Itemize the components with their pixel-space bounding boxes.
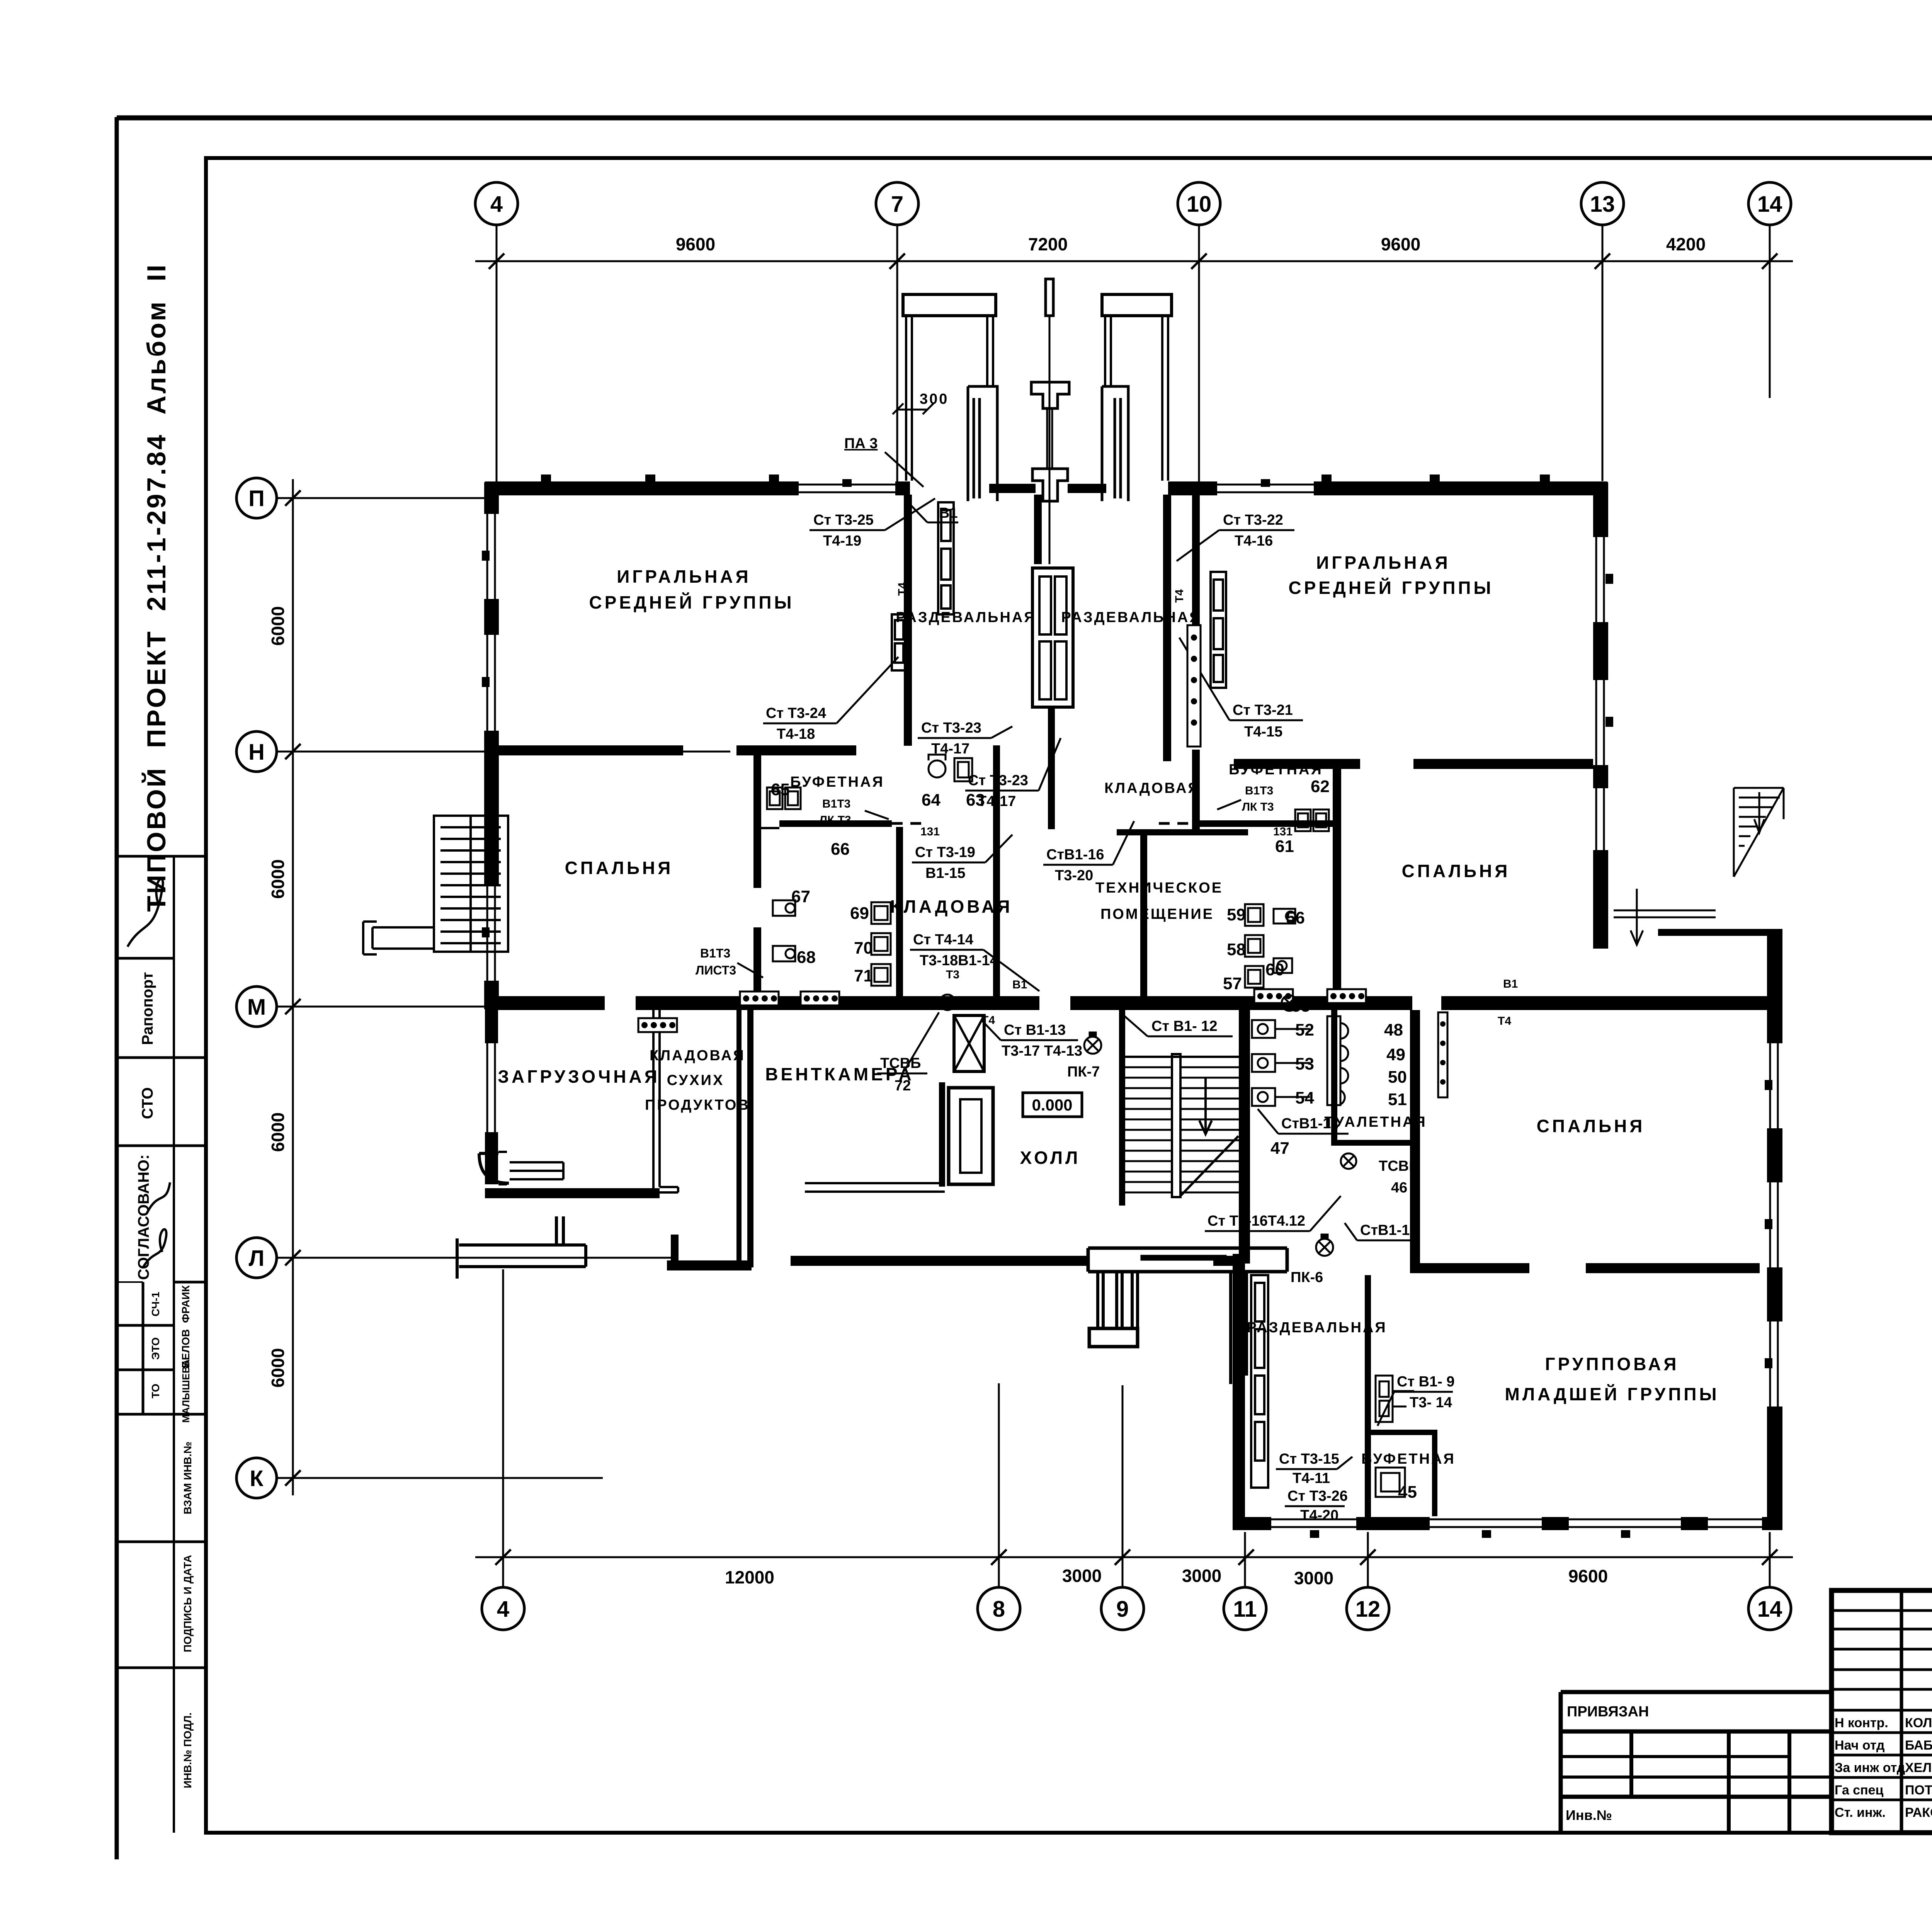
east13 window 3 — [1593, 788, 1608, 850]
riser box 5 — [1327, 989, 1366, 1003]
svg-text:ЛК Т3: ЛК Т3 — [1242, 801, 1274, 813]
center-right vertical wall — [1192, 495, 1200, 661]
svg-text:Т4: Т4 — [1173, 589, 1186, 603]
G_FIXTURES — [638, 502, 1543, 1497]
NW stair walkway — [363, 922, 434, 954]
svg-text:Т4: Т4 — [981, 1014, 995, 1027]
pilasters on north wall — [541, 474, 1550, 483]
svg-text:Ст Т3-23: Ст Т3-23 — [921, 720, 981, 736]
svg-text:ИГРАЛЬНАЯ: ИГРАЛЬНАЯ — [1316, 553, 1450, 573]
svg-text:66: 66 — [831, 840, 850, 859]
svg-text:68: 68 — [797, 948, 816, 967]
pipe tags — [896, 582, 1543, 1027]
G_TITLEBLOCK — [1832, 1590, 1932, 1865]
svg-text:ЗАГРУЗОЧНАЯ: ЗАГРУЗОЧНАЯ — [498, 1066, 660, 1087]
lower-left razdevalnaya radiator strip — [1251, 1275, 1268, 1488]
svg-text:СтВ1-11: СтВ1-11 — [1281, 1116, 1338, 1132]
svg-text:Ст Т3-19: Ст Т3-19 — [915, 844, 975, 861]
svg-text:В1: В1 — [1503, 978, 1518, 990]
svg-text:Т3: Т3 — [946, 968, 959, 981]
entry piers — [556, 1216, 563, 1245]
vertical riser strip left-center — [1187, 625, 1201, 747]
svg-text:ПА 3: ПА 3 — [844, 435, 878, 452]
drain symbol left — [940, 995, 955, 1010]
svg-text:3000: 3000 — [1182, 1566, 1221, 1586]
left axis circles — [236, 478, 277, 1498]
west wall lower — [485, 997, 498, 1184]
center thin pole line — [1049, 316, 1051, 564]
svg-text:В1: В1 — [1012, 978, 1027, 991]
svg-text:14: 14 — [1757, 1597, 1782, 1622]
central staircase stringer — [1172, 1054, 1180, 1197]
right porch columns — [1105, 316, 1168, 481]
east wall axis13 — [1593, 482, 1608, 949]
south vestibule left foot — [1089, 1328, 1138, 1347]
bufetnaya lower walls — [1371, 1430, 1437, 1435]
window band north 1 — [799, 479, 895, 495]
svg-text:ТСВБ: ТСВБ — [1379, 1158, 1419, 1174]
east14 window 2 — [1765, 1182, 1782, 1267]
svg-text:Рапопорт: Рапопорт — [139, 972, 156, 1045]
svg-text:Га спец: Га спец — [1835, 1783, 1884, 1798]
svg-text:50: 50 — [1388, 1068, 1407, 1087]
L wall hall — [667, 1260, 752, 1270]
south wall lower-right block — [1233, 1517, 1782, 1530]
riser box 1 — [638, 1018, 677, 1032]
svg-text:МЛАДШЕЙ ГРУППЫ: МЛАДШЕЙ ГРУППЫ — [1505, 1384, 1719, 1404]
svg-text:Ст Т3-26: Ст Т3-26 — [1287, 1488, 1348, 1504]
svg-text:45: 45 — [1398, 1483, 1417, 1502]
G_WALLS — [484, 481, 1782, 1530]
svg-text:КЛАДОВАЯ: КЛАДОВАЯ — [890, 896, 1012, 917]
north wall P — [485, 481, 910, 495]
entry steps SW — [510, 1162, 563, 1179]
row: signature/rapoport — [118, 957, 174, 960]
svg-text:СТО: СТО — [139, 1087, 156, 1119]
svg-text:СРЕДНЕЙ ГРУППЫ: СРЕДНЕЙ ГРУППЫ — [589, 592, 794, 612]
svg-text:58: 58 — [1227, 940, 1246, 959]
svg-text:Т4-11: Т4-11 — [1293, 1470, 1330, 1486]
svg-text:ФРАИК: ФРАИК — [180, 1285, 192, 1323]
roles and names — [1835, 1716, 1932, 1820]
svg-text:Т4-19: Т4-19 — [823, 533, 861, 549]
razdevalnaya left west wall — [904, 495, 912, 746]
svg-text:7: 7 — [891, 192, 903, 217]
central staircase landing edge — [1125, 1056, 1239, 1058]
center riser shaft — [1032, 568, 1073, 707]
inner frame — [206, 158, 1932, 1833]
svg-text:11: 11 — [1233, 1597, 1257, 1622]
axis 14 line top — [1769, 225, 1771, 398]
svg-text:71: 71 — [854, 966, 873, 985]
svg-text:КОЛГАНОВА: КОЛГАНОВА — [1905, 1716, 1932, 1730]
kladovaya suhih left wall — [653, 1010, 678, 1192]
riser box 2 — [740, 992, 779, 1005]
G_AXES — [236, 182, 1793, 1630]
svg-text:Т3-18В1-14: Т3-18В1-14 — [920, 952, 998, 969]
M wall — [485, 996, 1782, 1010]
PK-7 symbol — [1084, 1032, 1101, 1054]
axis 13 line top — [1602, 225, 1604, 481]
svg-text:СПАЛЬНЯ: СПАЛЬНЯ — [565, 858, 673, 878]
svg-text:Т3-20: Т3-20 — [1055, 867, 1093, 884]
svg-text:М: М — [247, 995, 266, 1020]
axis 7 line top — [896, 225, 898, 483]
svg-text:Л: Л — [249, 1246, 265, 1271]
svg-text:62: 62 — [1311, 777, 1330, 796]
svg-text:СЧ-1: СЧ-1 — [150, 1292, 162, 1316]
west wall window 2 — [482, 635, 499, 731]
svg-text:49: 49 — [1386, 1045, 1405, 1064]
svg-text:Т3-17 Т4-13: Т3-17 Т4-13 — [1002, 1043, 1082, 1059]
svg-text:12000: 12000 — [725, 1567, 774, 1587]
bottom dimension labels — [725, 1566, 1608, 1588]
svg-text:57: 57 — [1223, 974, 1242, 993]
razdevalnaya lower right wall — [1365, 1275, 1371, 1519]
left dimension line — [292, 479, 294, 1495]
svg-text:Ст Т3-21: Ст Т3-21 — [1233, 702, 1293, 718]
svg-text:0.000: 0.000 — [1032, 1096, 1072, 1114]
wash trough 48-51 — [1327, 1016, 1348, 1105]
riser box 4 — [1254, 989, 1293, 1003]
svg-text:51: 51 — [1388, 1090, 1407, 1109]
NE external stair — [1734, 788, 1784, 877]
svg-text:В1Т3: В1Т3 — [700, 946, 730, 960]
divider spalnya-lr left wall — [1410, 1009, 1420, 1263]
svg-text:Т4: Т4 — [896, 582, 909, 596]
svg-text:4: 4 — [497, 1597, 509, 1622]
svg-text:П: П — [248, 486, 265, 511]
dashed partition lines — [892, 822, 1200, 825]
svg-text:14: 14 — [1757, 192, 1782, 217]
G_PORCHES — [903, 279, 1172, 707]
svg-text:Т4-20: Т4-20 — [1300, 1507, 1338, 1524]
east14 window 3 — [1765, 1321, 1782, 1406]
svg-text:Ст Т3-23: Ст Т3-23 — [968, 772, 1028, 789]
svg-text:47: 47 — [1270, 1139, 1289, 1158]
svg-text:БАБИН: БАБИН — [1905, 1738, 1932, 1753]
toilet bottom wall — [1331, 1140, 1420, 1146]
kladovaya c left wall — [896, 827, 903, 997]
svg-text:6000: 6000 — [268, 859, 288, 899]
svg-text:В1-15: В1-15 — [925, 865, 966, 881]
fixtures 59-57 stack — [1245, 904, 1264, 988]
svg-text:ПОТАПОВА: ПОТАПОВА — [1905, 1783, 1932, 1798]
east14 window 1 — [1765, 1043, 1782, 1128]
west wall upper — [484, 482, 499, 1009]
svg-text:Ст В1- 9: Ст В1- 9 — [1397, 1374, 1455, 1390]
svg-text:СОГЛАСОВАНО:: СОГЛАСОВАНО: — [135, 1155, 152, 1280]
west wall lower-right block axis11 — [1233, 1254, 1245, 1530]
privyazan table outline — [1561, 1692, 1832, 1833]
NW external stair — [434, 816, 508, 952]
buffet sinks right — [1295, 810, 1329, 831]
center flag pole rect — [1046, 279, 1053, 316]
svg-text:ЭТО: ЭТО — [150, 1337, 162, 1360]
svg-text:ТУАЛЕТНАЯ: ТУАЛЕТНАЯ — [1324, 1114, 1427, 1130]
fixture 60 — [1274, 958, 1292, 973]
svg-text:3000: 3000 — [1062, 1566, 1102, 1586]
svg-text:Ст Т3-16Т4.12: Ст Т3-16Т4.12 — [1207, 1213, 1305, 1229]
right porch canopy — [1102, 294, 1172, 316]
svg-text:СтВ1-16: СтВ1-16 — [1046, 847, 1104, 863]
left porch body — [968, 386, 997, 501]
corridor ramp lines — [1614, 889, 1716, 945]
svg-text:3000: 3000 — [1294, 1568, 1333, 1588]
svg-text:61: 61 — [1275, 837, 1294, 856]
svg-text:Нач отд: Нач отд — [1835, 1738, 1885, 1753]
G_NUMBERS — [771, 777, 1417, 1502]
svg-text:ПК-7: ПК-7 — [1067, 1064, 1100, 1080]
svg-text:СтВ1-10: СтВ1-10 — [1360, 1222, 1418, 1238]
svg-text:4: 4 — [490, 192, 503, 217]
svg-text:131: 131 — [920, 825, 940, 838]
tech room top wall — [1117, 829, 1248, 835]
svg-text:Т3: Т3 — [1529, 997, 1543, 1010]
gruppovaya divider walls — [1410, 1263, 1529, 1273]
svg-text:За инж отд: За инж отд — [1835, 1760, 1905, 1775]
G_PRIVYAZAN — [1561, 1692, 1832, 1833]
drain symbol right — [1282, 995, 1297, 1011]
center column upper — [1031, 382, 1069, 408]
svg-text:В1Т3: В1Т3 — [822, 798, 850, 810]
buffet right bottom wall — [1200, 820, 1333, 827]
svg-text:ИГРАЛЬНАЯ: ИГРАЛЬНАЯ — [617, 566, 751, 587]
ventkamera south wall — [805, 1183, 945, 1192]
top dimension line — [475, 260, 1793, 262]
svg-text:РАКОВА: РАКОВА — [1905, 1805, 1932, 1820]
N wall left segs — [498, 745, 683, 755]
fixture 67 — [773, 900, 795, 916]
fixture 45 box — [1376, 1468, 1405, 1497]
sidebar signature scribbles — [128, 879, 170, 1267]
east13 window 2 — [1593, 680, 1613, 765]
kladovaya c right wall — [993, 745, 1000, 997]
G_WINDOWS — [482, 474, 1782, 1538]
row: CTO — [118, 1145, 206, 1147]
south-lr window 2 — [1430, 1516, 1542, 1538]
south-lr window 3 — [1569, 1516, 1681, 1538]
svg-text:ПК-6: ПК-6 — [1291, 1269, 1323, 1286]
svg-text:59: 59 — [1227, 905, 1246, 924]
sidebar rotated small labels — [135, 972, 194, 1788]
left porch columns — [906, 316, 993, 481]
tech room left wall — [1140, 829, 1147, 997]
svg-text:300: 300 — [920, 391, 949, 407]
svg-text:Т3- 14: Т3- 14 — [1410, 1395, 1452, 1411]
svg-text:9600: 9600 — [1381, 234, 1420, 254]
svg-text:ПОДПИСЬ И ДАТА: ПОДПИСЬ И ДАТА — [182, 1555, 194, 1652]
svg-text:9600: 9600 — [1568, 1566, 1608, 1586]
G_SIDEBAR — [118, 263, 206, 1833]
center divider upper — [1034, 495, 1042, 564]
svg-text:Т4-15: Т4-15 — [1244, 724, 1282, 740]
svg-text:МАЛЫШЕВА: МАЛЫШЕВА — [180, 1359, 192, 1423]
elevator shaft — [954, 1015, 984, 1071]
svg-text:Инв.№: Инв.№ — [1566, 1807, 1612, 1823]
top dimension labels — [676, 234, 1706, 254]
west wall window 1 — [482, 514, 499, 599]
svg-text:ТО: ТО — [150, 1384, 162, 1398]
svg-text:10: 10 — [1187, 192, 1212, 217]
stair right wall — [1239, 1009, 1250, 1264]
outer border top — [117, 116, 1932, 121]
svg-text:КЛАДОВАЯ: КЛАДОВАЯ — [1104, 780, 1200, 796]
central staircase treads — [1125, 1067, 1239, 1192]
svg-text:ЛИСТ3: ЛИСТ3 — [696, 963, 736, 977]
south-lr window 4 — [1708, 1516, 1762, 1531]
svg-text:ПРОДУКТОВ: ПРОДУКТОВ — [645, 1097, 750, 1113]
center divider lower — [1048, 707, 1055, 829]
ventkamera west double wall — [736, 1007, 753, 1267]
svg-text:46: 46 — [1391, 1180, 1407, 1196]
G_ENTRY_SOUTH — [457, 1152, 1287, 1384]
svg-text:ВЗАМ ИНВ.№: ВЗАМ ИНВ.№ — [182, 1442, 194, 1514]
N wall right segs — [1234, 759, 1360, 769]
svg-text:ГРУППОВАЯ: ГРУППОВАЯ — [1545, 1354, 1679, 1374]
riser stack StT3-25 left — [938, 502, 954, 614]
fixtures 64 63 — [929, 755, 972, 781]
bottom axis circles — [482, 1587, 1791, 1630]
soglasovano block rows — [174, 1281, 206, 1284]
M wall door gaps — [605, 996, 636, 1010]
svg-text:Ст Т4-14: Ст Т4-14 — [913, 932, 973, 948]
zero level box — [1023, 1093, 1082, 1117]
sidebar table outline — [118, 855, 206, 858]
svg-text:ХЕЛИНСКИЙ: ХЕЛИНСКИЙ — [1905, 1760, 1932, 1775]
left axis stubs — [277, 497, 485, 499]
podpis row — [118, 1667, 206, 1669]
south vestibule left pillars — [1098, 1272, 1138, 1328]
spalnya ur west wall — [1333, 767, 1341, 997]
svg-text:СПАЛЬНЯ: СПАЛЬНЯ — [1537, 1116, 1645, 1136]
top dim ticks — [489, 253, 1777, 269]
svg-text:7200: 7200 — [1028, 234, 1068, 254]
stair arrow down — [1199, 1078, 1212, 1134]
fixture 46 — [1341, 1153, 1356, 1169]
center column lower — [1032, 469, 1068, 501]
G_STAIRS — [363, 788, 1784, 1267]
svg-text:ИНВ.№ ПОДЛ.: ИНВ.№ ПОДЛ. — [182, 1713, 194, 1788]
toilet left wall — [1331, 1009, 1337, 1146]
svg-text:Ст В1-13: Ст В1-13 — [1004, 1022, 1066, 1038]
fixture 68 — [773, 946, 795, 961]
fixtures 69-71 stack — [871, 902, 891, 986]
svg-text:48: 48 — [1384, 1020, 1403, 1039]
svg-text:Ст В1- 12: Ст В1- 12 — [1151, 1018, 1218, 1034]
ventkamera east wall — [939, 1082, 945, 1187]
east wall axis14 lower — [1767, 929, 1782, 1530]
svg-text:Ст Т3-15: Ст Т3-15 — [1279, 1451, 1339, 1467]
corridor wall east — [1658, 929, 1782, 936]
svg-text:13: 13 — [1590, 192, 1615, 217]
vertical dotted strip tualetnaya — [1438, 1012, 1447, 1097]
svg-text:8: 8 — [993, 1597, 1005, 1622]
west wall window 3 — [482, 885, 499, 981]
svg-text:Н: Н — [248, 740, 265, 765]
svg-text:9600: 9600 — [676, 234, 715, 254]
svg-text:Ст Т3-22: Ст Т3-22 — [1223, 512, 1283, 528]
buffet left bottom wall — [779, 820, 892, 827]
axis 10 line top — [1198, 225, 1200, 483]
south-lr window 1 — [1271, 1516, 1356, 1538]
svg-text:Т4-16: Т4-16 — [1235, 533, 1273, 549]
svg-text:СПАЛЬНЯ: СПАЛЬНЯ — [1402, 861, 1510, 881]
svg-text:69: 69 — [850, 904, 869, 923]
svg-text:РАЗДЕВАЛЬНАЯ: РАЗДЕВАЛЬНАЯ — [896, 609, 1036, 626]
svg-text:Ст Т3-25: Ст Т3-25 — [813, 512, 874, 528]
svg-text:ТИПОВОЙ ПРОЕКТ 211-1-297.84: ТИПОВОЙ ПРОЕКТ 211-1-297.84 Альбом II — [141, 263, 171, 912]
top axis circles — [475, 182, 1791, 225]
left porch canopy — [903, 294, 996, 316]
svg-text:БУФЕТНАЯ: БУФЕТНАЯ — [1229, 762, 1323, 778]
leader underlines — [737, 498, 1453, 1506]
buffet sinks left — [767, 787, 801, 809]
G_ROOMLABELS — [498, 553, 1719, 1467]
svg-text:ТСВБ: ТСВБ — [880, 1055, 921, 1071]
PK-6 symbol — [1316, 1235, 1333, 1256]
svg-text:Ст Т3-24: Ст Т3-24 — [766, 705, 826, 721]
svg-text:63: 63 — [966, 791, 985, 810]
axis 4 line top — [496, 225, 498, 486]
bottom dimension line — [475, 1556, 1793, 1558]
right porch body — [1102, 386, 1128, 501]
svg-text:131: 131 — [1273, 825, 1293, 838]
svg-text:12: 12 — [1355, 1597, 1381, 1622]
vent shaft — [949, 1088, 993, 1184]
svg-text:БУФЕТНАЯ: БУФЕТНАЯ — [790, 774, 884, 790]
riser box 3 — [801, 992, 839, 1005]
central staircase diagonal — [1180, 1136, 1238, 1196]
svg-text:СУХИХ: СУХИХ — [667, 1072, 724, 1088]
entry walkway lower — [457, 1238, 586, 1279]
svg-text:Т4-18: Т4-18 — [777, 726, 815, 742]
G_LEADERS — [696, 498, 1455, 1524]
south wall zagruzochnaya — [485, 1188, 660, 1198]
south vestibule right pillar — [1231, 1272, 1247, 1384]
svg-text:ЛК Т3: ЛК Т3 — [819, 814, 851, 827]
svg-text:СРЕДНЕЙ ГРУППЫ: СРЕДНЕЙ ГРУППЫ — [1288, 578, 1493, 598]
svg-text:К: К — [250, 1466, 264, 1491]
title block outline — [1832, 1590, 1932, 1833]
porch block corner — [479, 1153, 509, 1183]
razdevalnaya right east wall — [1163, 495, 1171, 761]
svg-text:ТЕХНИЧЕСКОЕ: ТЕХНИЧЕСКОЕ — [1095, 880, 1223, 896]
svg-text:В1Т3: В1Т3 — [1245, 784, 1273, 797]
svg-text:72: 72 — [895, 1078, 911, 1094]
svg-text:67: 67 — [791, 887, 810, 906]
spalnya ul right wall — [753, 755, 761, 888]
svg-text:ПОМЕЩЕНИЕ: ПОМЕЩЕНИЕ — [1100, 906, 1214, 922]
bottom dim ticks — [495, 1549, 1777, 1565]
svg-text:64: 64 — [922, 791, 940, 810]
svg-text:9: 9 — [1116, 1597, 1129, 1622]
lower bufetnaya fixtures — [1376, 1376, 1414, 1422]
west wall lower window — [484, 1043, 499, 1132]
svg-text:ХОЛЛ: ХОЛЛ — [1020, 1148, 1081, 1168]
svg-text:6000: 6000 — [268, 1348, 288, 1388]
pier at L wall left — [671, 1235, 679, 1262]
south vestibule canopy band — [1088, 1248, 1287, 1272]
left dimension labels (rotated) — [268, 606, 288, 1388]
svg-text:Ст. инж.: Ст. инж. — [1835, 1805, 1886, 1820]
svg-text:Т4: Т4 — [1498, 1015, 1511, 1027]
svg-text:6000: 6000 — [268, 1112, 288, 1152]
bottom axis stubs — [502, 1269, 504, 1587]
svg-text:РАЗДЕВАЛЬНАЯ: РАЗДЕВАЛЬНАЯ — [1061, 609, 1201, 626]
riser stack StT3-24 — [892, 614, 906, 670]
window band north 2 — [1217, 479, 1314, 495]
